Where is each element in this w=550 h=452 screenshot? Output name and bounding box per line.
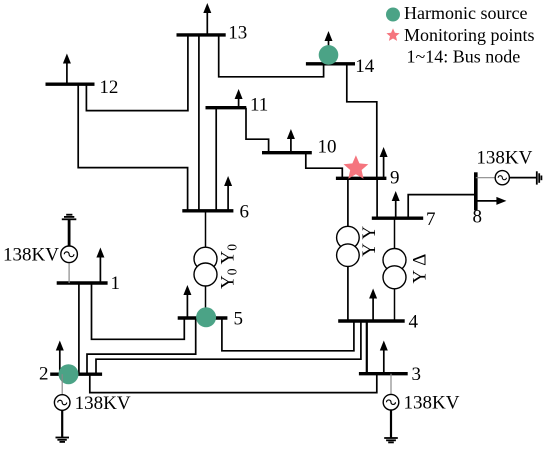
bus 8 (vertical bar) — [474, 172, 478, 210]
load arrow bus 8 (pointing right) — [476, 200, 500, 202]
bus 9 — [336, 177, 387, 180]
wire branch 6-12 — [78, 84, 187, 211]
bus 11 — [206, 106, 247, 109]
svg-text:6: 6 — [240, 202, 250, 223]
load arrow bus 2 — [59, 347, 61, 374]
svg-text:4: 4 — [409, 312, 419, 333]
wire transformer link 9-4 — [347, 178, 349, 321]
svg-text:5: 5 — [234, 309, 244, 330]
bus 12 — [46, 82, 95, 85]
load arrow bus 6 — [227, 183, 229, 211]
svg-text:Y Y: Y Y — [359, 226, 380, 257]
load arrow bus 10 — [290, 136, 292, 153]
legend monitoring star — [386, 28, 399, 41]
svg-text:138KV: 138KV — [3, 244, 59, 265]
wire branch 7-8 — [408, 195, 476, 219]
load arrow bus 5 — [186, 292, 188, 319]
wire branch 6-11 — [215, 108, 217, 211]
wire branch 2-4 — [96, 321, 361, 374]
svg-text:3: 3 — [412, 364, 422, 385]
ground at G2 — [56, 438, 70, 442]
svg-text:138KV: 138KV — [476, 147, 532, 168]
svg-text:2: 2 — [39, 364, 49, 385]
load arrow bus 11 — [238, 96, 240, 108]
svg-text:11: 11 — [250, 95, 268, 116]
bus 5 — [178, 316, 228, 319]
transformer T1 (5-6) Y0Y0 — [194, 247, 217, 286]
wire branch 1-5 — [92, 283, 185, 339]
load arrow bus 1 — [99, 254, 101, 283]
bus 14 — [306, 62, 355, 65]
load arrow bus 12 — [66, 60, 68, 84]
ground at G8 (pointing right) — [537, 171, 542, 184]
legend harmonic source dot — [386, 8, 400, 22]
load arrow bus 9 — [383, 154, 385, 179]
svg-text:13: 13 — [228, 23, 247, 44]
transformer T2 (9-4) YY — [337, 226, 360, 266]
svg-text:8: 8 — [473, 207, 483, 228]
wire branch 1-2 — [78, 283, 80, 374]
bus 10 — [262, 151, 312, 154]
bus 13 — [177, 33, 226, 36]
ground at G3 — [384, 438, 398, 442]
svg-text:Y Δ: Y Δ — [410, 254, 431, 284]
transformer T3 (7-4) Y-delta — [383, 249, 406, 289]
svg-text:14: 14 — [355, 56, 375, 77]
wire branch 2-5 — [87, 318, 196, 374]
bus 2 — [50, 373, 102, 376]
wire branch 7-9 — [376, 178, 378, 218]
load arrow bus 4 — [372, 295, 374, 321]
wire branch 3-4 — [366, 321, 368, 374]
wire transformer link 7-4 — [394, 218, 396, 321]
svg-text:1~14: Bus node: 1~14: Bus node — [407, 47, 521, 67]
bus 7 — [372, 216, 423, 219]
generator G2 at bus 2 — [54, 374, 70, 437]
svg-text:Monitoring points: Monitoring points — [404, 25, 535, 45]
wire branch 10-11 — [246, 108, 269, 153]
ground at G1 (pointing up) — [62, 215, 77, 220]
wire branch 12-13 — [86, 35, 187, 111]
bus 1 — [57, 281, 108, 284]
svg-text:138KV: 138KV — [404, 393, 460, 414]
load arrow bus 13 — [206, 10, 208, 35]
generator G3 at bus 3 — [383, 374, 399, 438]
monitoring star bus 9 — [344, 155, 369, 179]
svg-text:12: 12 — [99, 77, 118, 98]
bus 3 — [359, 372, 408, 375]
harmonic source dot bus 2 — [59, 364, 79, 384]
bus 4 — [338, 319, 405, 322]
wire branch 9-10 — [306, 153, 343, 179]
svg-text:1: 1 — [111, 273, 121, 294]
harmonic source dot bus 14 — [319, 45, 339, 65]
bus 6 — [182, 209, 233, 212]
wire transformer link 5-6 — [205, 211, 207, 318]
svg-text:10: 10 — [318, 137, 337, 158]
wire branch 4-5 — [222, 318, 354, 351]
generator G1 at bus 1 — [61, 220, 78, 284]
svg-text:7: 7 — [426, 209, 436, 230]
svg-text:Harmonic source: Harmonic source — [404, 3, 527, 23]
wire branch 9-14 — [347, 64, 377, 179]
svg-text:9: 9 — [390, 168, 400, 189]
wire branch 13-14 — [219, 35, 324, 77]
wire branch 2-3 — [90, 374, 377, 393]
load arrow bus 7 — [395, 198, 397, 219]
load arrow bus 14 — [328, 38, 330, 49]
load arrow bus 3 — [383, 347, 385, 374]
harmonic source dot bus 5 — [196, 307, 216, 327]
wire branch 6-13 — [198, 35, 200, 211]
generator G8 at bus 8 — [476, 171, 537, 185]
svg-text:138KV: 138KV — [75, 393, 131, 414]
